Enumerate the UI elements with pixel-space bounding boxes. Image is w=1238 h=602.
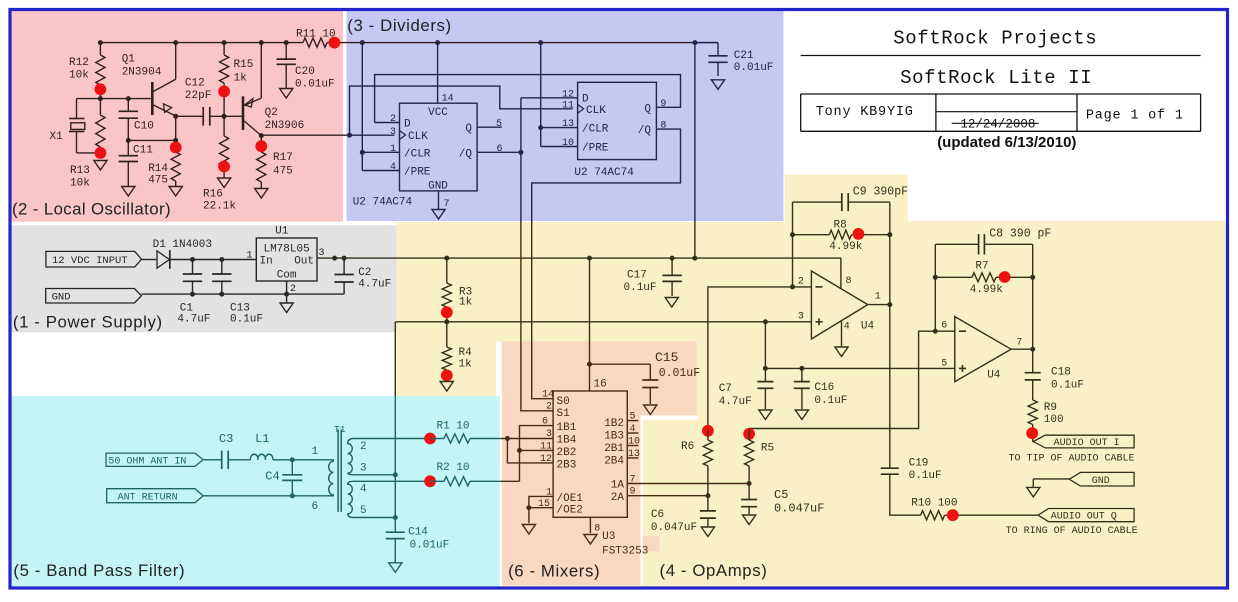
R5 red dot [743, 428, 755, 440]
ground below mixer pin 8 [584, 535, 597, 545]
junction OE2 [526, 505, 531, 510]
wire R5 top to opamp2 inverting input [749, 331, 955, 428]
svg-text:1k: 1k [234, 73, 248, 85]
ground below C21 [711, 80, 724, 90]
wire emitter node to R14 [128, 139, 175, 141]
junction C10 C11 emitter node [126, 138, 131, 143]
resistor R16 [223, 116, 225, 136]
junction rail C21 [692, 40, 697, 45]
wire Q2 collector to dividers clock [261, 134, 349, 136]
svg-text:C7: C7 [719, 383, 732, 395]
svg-text:1B2: 1B2 [604, 418, 624, 430]
svg-text:(1 - Power Supply): (1 - Power Supply) [13, 313, 163, 332]
wire center tap down to C14 [394, 475, 396, 532]
wire clock to U2a CLK pin 3 [350, 134, 395, 136]
junction bias C7 [763, 366, 768, 371]
svg-text:10: 10 [562, 138, 574, 149]
svg-text:22.1k: 22.1k [203, 201, 236, 213]
svg-text:(5 - Band Pass Filter): (5 - Band Pass Filter) [13, 561, 185, 580]
svg-text:C4: C4 [265, 470, 279, 484]
R4 red dot [441, 370, 453, 382]
wire R6 up to opamp1 inverting input [708, 287, 812, 426]
wire opamp1 feedback right vertical [889, 202, 891, 305]
capacitor C3 [221, 451, 223, 470]
U1 pin 2 wire [286, 281, 288, 294]
wire OE1 OE2 tie [529, 496, 553, 523]
wire U2a pin 2 stub [375, 122, 400, 124]
junction bias C16 [799, 366, 804, 371]
capacitor C15 [649, 364, 651, 380]
svg-text:3: 3 [360, 463, 367, 475]
title block date cell divider [936, 111, 1077, 113]
svg-text:U2 74AC74: U2 74AC74 [574, 167, 634, 179]
Q1 emitter C12 tap junction [173, 114, 178, 119]
band pass filter region background (cyan) [11, 396, 500, 588]
tag GND power input [46, 289, 142, 304]
svg-text:FST3253: FST3253 [602, 546, 648, 558]
tag ANT RETURN [107, 489, 203, 503]
wire 12V input to D1 [142, 259, 158, 261]
svg-text:X1: X1 [50, 131, 64, 143]
junction base node R12 [98, 96, 103, 101]
white gap left of mixer region [496, 341, 502, 396]
U4a plus sign [816, 321, 823, 323]
junction opamp1 pin2 node [790, 284, 795, 289]
svg-text:VCC: VCC [428, 107, 448, 119]
ground below R16 [218, 178, 231, 188]
resistor R4 [446, 322, 448, 347]
ground below C15 [644, 405, 657, 415]
svg-text:0.1uF: 0.1uF [909, 470, 942, 482]
wire mixer 2A output [627, 495, 708, 497]
svg-text:4.99k: 4.99k [829, 241, 862, 253]
svg-text:(updated 6/13/2010): (updated 6/13/2010) [937, 134, 1076, 151]
wire opamp1 output down to C19 [889, 305, 891, 469]
U4b minus sign [959, 330, 966, 332]
svg-text:U2 74AC74: U2 74AC74 [353, 197, 413, 209]
flip-flop U2b box [578, 82, 657, 159]
junction opamp2 output [1030, 347, 1035, 352]
svg-text:TO TIP OF AUDIO CABLE: TO TIP OF AUDIO CABLE [1009, 454, 1135, 465]
mixers region background (orange) [502, 341, 641, 585]
wire C19 to R10 [890, 474, 921, 515]
svg-text:S0: S0 [557, 396, 570, 408]
capacitor C7 [764, 368, 766, 381]
svg-text:1B4: 1B4 [557, 435, 577, 447]
junction 5V rail C17 [670, 256, 675, 261]
resistor R9 [1028, 400, 1037, 425]
svg-text:R5: R5 [761, 443, 774, 455]
svg-text:C3: C3 [219, 432, 233, 446]
junction I input net [505, 436, 510, 441]
capacitor C1 [192, 260, 194, 275]
svg-text:3: 3 [798, 311, 804, 322]
wire bias to opamp2 noninverting input [765, 367, 954, 369]
svg-text:4.7uF: 4.7uF [719, 396, 752, 408]
wire D1 to U1 In [170, 259, 256, 261]
wire Q1 base node [77, 98, 153, 100]
svg-text:C17: C17 [627, 270, 647, 282]
junction rail pins14 vertical [360, 40, 365, 45]
power supply region background (gray) [11, 225, 397, 332]
resistor R7 [935, 276, 972, 278]
junction rail R12 [98, 40, 103, 45]
svg-text:GND: GND [1092, 476, 1110, 487]
R1 red dot [424, 433, 436, 445]
wire C3 to L1 [228, 459, 250, 461]
svg-text:/Q: /Q [459, 148, 473, 160]
wire R9 to audio out I tag [1033, 441, 1035, 443]
svg-text:C8 390 pF: C8 390 pF [989, 227, 1051, 240]
junction Q2 collector output [259, 133, 264, 138]
wire U2a pin 4 stub [362, 170, 399, 172]
junction pin5 C14 [393, 515, 398, 520]
svg-text:1: 1 [390, 144, 396, 155]
svg-text:C14: C14 [408, 527, 428, 539]
junction rail pin14 [435, 40, 440, 45]
svg-text:0.047uF: 0.047uF [651, 522, 697, 534]
R12 red dot [95, 83, 107, 95]
op-amp U4a triangle [811, 271, 867, 339]
svg-text:12/24/2008: 12/24/2008 [960, 118, 1035, 132]
ground rail wire [142, 293, 345, 295]
U4a minus sign [816, 286, 823, 288]
diode D1 [157, 251, 169, 268]
svg-text:ANT RETURN: ANT RETURN [118, 492, 178, 503]
svg-text:0.1uF: 0.1uF [624, 282, 657, 294]
svg-text:1k: 1k [459, 359, 473, 371]
svg-text:Tony KB9YIG: Tony KB9YIG [816, 105, 914, 120]
transformer T1 secondary winding lower [348, 481, 354, 517]
R16 red dot [218, 161, 230, 173]
svg-text:T1: T1 [334, 424, 346, 435]
ground below C16 [795, 410, 808, 420]
svg-text:6: 6 [497, 144, 503, 155]
wire VCC top rail in oscillator [100, 42, 303, 44]
svg-text:8: 8 [660, 121, 666, 132]
svg-text:4.7uF: 4.7uF [358, 279, 391, 291]
resistor R14 [175, 140, 177, 152]
junction 5V rail C21 branch [692, 256, 697, 261]
capacitor C12 coupling [202, 107, 204, 126]
svg-text:In: In [260, 256, 273, 268]
junction 5V rail segment [332, 256, 337, 261]
capacitor C9 feedback [793, 201, 842, 203]
wire Q input into mixer region [501, 480, 520, 482]
wire opamp1 pin 4 ground stem [841, 322, 843, 347]
junction Q net 2B2 [517, 448, 522, 453]
svg-text:9: 9 [660, 99, 666, 110]
svg-text:2B2: 2B2 [557, 447, 577, 459]
svg-text:CLK: CLK [586, 105, 606, 117]
U3 right stub 2B1 [627, 445, 638, 447]
svg-text:1: 1 [312, 446, 319, 458]
capacitor C6 [707, 496, 709, 511]
svg-text:R14: R14 [148, 163, 168, 175]
svg-text:2B1: 2B1 [604, 443, 624, 455]
U2a pin 5 stub [477, 126, 502, 128]
U2a CLK input triangle [400, 131, 406, 140]
junction C13 bottom [219, 292, 224, 297]
capacitor C4 [291, 460, 293, 475]
wire mixer pin 8 ground [589, 517, 591, 533]
svg-text:AUDIO OUT Q: AUDIO OUT Q [1051, 512, 1117, 523]
svg-text:(2 - Local Oscillator): (2 - Local Oscillator) [12, 200, 171, 219]
ground below C11 [122, 187, 135, 197]
R8 red dot [853, 228, 865, 240]
junction R7 right [1030, 275, 1035, 280]
svg-text:100: 100 [1044, 414, 1064, 426]
junction 5V rail R3 [444, 256, 449, 261]
ground below C20 [280, 89, 293, 99]
svg-text:22pF: 22pF [185, 90, 211, 102]
svg-text:0.1uF: 0.1uF [814, 395, 847, 407]
svg-text:16: 16 [594, 379, 607, 391]
svg-text:C18: C18 [1051, 367, 1071, 379]
capacitor C16 [801, 368, 803, 381]
svg-text:8: 8 [594, 524, 600, 535]
svg-text:4: 4 [390, 162, 396, 173]
capacitor C18 [1032, 349, 1034, 373]
title block outer lines [801, 55, 1201, 57]
junction rail pins13-10 [538, 40, 543, 45]
svg-text:10k: 10k [69, 70, 89, 82]
resistor R1 [430, 438, 444, 440]
svg-text:4.7uF: 4.7uF [177, 314, 210, 326]
junction 2A R6 C6 [705, 493, 710, 498]
wire T1 pin 5 to C14 node [354, 517, 396, 519]
wire T1 pin 3 center tap [354, 474, 396, 476]
svg-text:475: 475 [273, 166, 293, 178]
svg-text:/PRE: /PRE [582, 143, 609, 155]
svg-text:R10 100: R10 100 [911, 498, 957, 510]
wire 2B2 pin 11 stub [520, 449, 554, 451]
wire U2a pin 1 stub [362, 151, 399, 153]
resistor R3 [446, 258, 448, 283]
wire L1 to T1 pin 1 [273, 459, 323, 461]
svg-text:5: 5 [941, 359, 947, 370]
R2 red dot [424, 475, 436, 487]
tag 12 VDC INPUT [46, 251, 142, 267]
svg-text:2: 2 [360, 441, 367, 453]
svg-text:/CLR: /CLR [582, 124, 609, 136]
svg-text:C2: C2 [358, 267, 371, 279]
svg-text:Q: Q [465, 123, 472, 135]
resistor R10 [921, 511, 945, 520]
wire opamp1 output stub [868, 304, 890, 306]
capacitor C13 [221, 260, 223, 275]
svg-text:(3 - Dividers): (3 - Dividers) [347, 16, 451, 35]
svg-text:7: 7 [444, 199, 450, 210]
capacitor C19 [881, 467, 899, 469]
svg-text:R16: R16 [203, 189, 223, 201]
svg-text:1A: 1A [611, 480, 625, 492]
R13 red dot [95, 147, 107, 159]
capacitor C8 feedback [935, 243, 978, 245]
junction 5V rail mixer VCC [587, 256, 592, 261]
svg-text:R11 10: R11 10 [296, 29, 336, 41]
resistor R6 [707, 431, 709, 440]
tag 50 OHM ANT IN [106, 453, 203, 466]
R14 red dot [170, 142, 182, 154]
R15 red dot [218, 86, 230, 98]
local oscillator region background (pink) [11, 11, 343, 222]
resistor R11 in top rail [303, 38, 327, 47]
wire U2a pin 14 VCC [437, 43, 439, 104]
mixers region FST3253 label patch (orange) [641, 536, 660, 552]
svg-text:C21: C21 [734, 50, 754, 62]
wire ant return to T1 pin 6 [203, 495, 323, 497]
svg-text:10k: 10k [70, 178, 90, 190]
svg-text:C20: C20 [295, 66, 315, 78]
junction rail C20 [284, 40, 289, 45]
R6 red dot [702, 425, 714, 437]
svg-text:11: 11 [562, 100, 574, 111]
svg-text:AUDIO OUT I: AUDIO OUT I [1054, 438, 1120, 449]
capacitor C10 [127, 99, 129, 112]
tag AUDIO OUT I [1033, 435, 1134, 448]
ground below C5 [743, 515, 756, 525]
junction C12 node R15 R16 [222, 114, 227, 119]
svg-text:475: 475 [148, 175, 168, 187]
svg-text:Q2: Q2 [265, 107, 278, 119]
wire C21 branch down to 5V rail [694, 43, 696, 222]
svg-text:14: 14 [442, 94, 454, 105]
junction rail R15 [222, 40, 227, 45]
svg-text:1B3: 1B3 [604, 431, 624, 443]
ground below GND tag wire [1027, 487, 1040, 497]
wire U2b pin 8 to mixer S0 [532, 129, 681, 222]
junction rail Q1 collector [173, 40, 178, 45]
junction 1A R5 C5 [747, 481, 752, 486]
svg-text:R13: R13 [70, 165, 90, 177]
svg-text:(6 - Mixers): (6 - Mixers) [508, 562, 600, 581]
ground below C6 [701, 527, 714, 537]
junction R7 left [933, 275, 938, 280]
U2b CLK input triangle [578, 104, 584, 113]
svg-text:5: 5 [496, 119, 502, 130]
inductor L1 [250, 454, 272, 460]
svg-text:U3: U3 [602, 531, 615, 543]
wire opamp2 feedback right vertical [1032, 244, 1034, 349]
wire T1 pin 2 to R1 [354, 438, 431, 440]
svg-text:R4: R4 [459, 347, 473, 359]
wire opamp1 feedback left vertical [792, 202, 794, 287]
wire U2b pins 13 10 pull-up vertical [540, 43, 542, 147]
svg-text:C11: C11 [133, 145, 153, 157]
transformer T1 core [337, 430, 339, 512]
ground at U1 pin 2 [286, 294, 288, 303]
wire U2b D net down to mixer S1 [520, 98, 522, 222]
wire 2.5V bias rail [395, 321, 811, 323]
resistor R12 [99, 43, 101, 55]
wire crystal to R13 bottom [77, 152, 101, 154]
svg-text:2: 2 [546, 402, 552, 413]
mixer U3 FST3253 box [553, 391, 627, 517]
junction C4 top [290, 457, 295, 462]
svg-text:2N3904: 2N3904 [122, 67, 162, 79]
R3 red dot [441, 306, 453, 318]
transformer T1 primary winding [323, 460, 333, 496]
wire mixer 1A output [627, 483, 749, 485]
svg-text:5: 5 [360, 505, 367, 517]
U3 right stub 2B4 [627, 457, 638, 459]
junction C1 top [190, 257, 195, 262]
svg-text:SoftRock Lite II: SoftRock Lite II [900, 67, 1092, 89]
title block cell borders [800, 94, 802, 131]
capacitor C5 [748, 484, 750, 500]
white gap right of mixer region [641, 420, 643, 586]
white gap between filter and mixer regions [500, 396, 502, 588]
svg-text:Q1: Q1 [122, 54, 136, 66]
ground below opamp1 pin 4 [835, 347, 848, 357]
svg-text:SoftRock Projects: SoftRock Projects [893, 28, 1097, 50]
svg-text:Q: Q [644, 103, 651, 115]
junction pin13 vertical [538, 125, 543, 130]
svg-text:Page 1 of 1: Page 1 of 1 [1086, 109, 1184, 124]
svg-text:L1: L1 [255, 432, 269, 446]
junction U2a pin6 to U2b D [518, 150, 523, 155]
svg-text:2A: 2A [611, 492, 625, 504]
junction center tap [393, 472, 398, 477]
capacitor C21 [695, 42, 718, 44]
svg-text:/OE2: /OE2 [557, 504, 583, 516]
svg-text:2: 2 [390, 114, 396, 125]
wire U2b pin 12 stub [521, 97, 578, 99]
svg-text:1B1: 1B1 [557, 422, 577, 434]
junction pin1 vertical [360, 150, 365, 155]
svg-text:C6: C6 [651, 509, 664, 521]
svg-text:6: 6 [941, 321, 947, 332]
junction opamp1 output [887, 302, 892, 307]
R10 red dot [947, 509, 959, 521]
svg-text:2B3: 2B3 [557, 459, 577, 471]
wire clock branch up to second FF [350, 86, 573, 135]
svg-text:2: 2 [290, 284, 296, 295]
svg-text:1: 1 [875, 292, 881, 303]
svg-text:C15: C15 [655, 350, 678, 365]
wire C7 C16 bias branch [764, 322, 766, 369]
svg-text:2B4: 2B4 [604, 455, 624, 467]
opamps region background (yellow) [397, 175, 1226, 587]
junction U1 pin 2 ground [284, 292, 289, 297]
resistor R8 [793, 234, 830, 236]
R9 red dot [1026, 427, 1038, 439]
junction clock net [347, 133, 352, 138]
tag GND audio [1069, 472, 1134, 486]
U3 right stub 1B2 [627, 420, 638, 422]
svg-text:12 VDC INPUT: 12 VDC INPUT [52, 255, 128, 267]
junction bias rail C7 branch [763, 319, 768, 324]
svg-text:GND: GND [428, 180, 448, 192]
junction pin16 C15 branch [587, 362, 592, 367]
svg-text:6: 6 [312, 501, 319, 513]
tag AUDIO OUT Q [1038, 509, 1134, 522]
svg-text:R15: R15 [234, 59, 254, 71]
svg-text:50 OHM ANT IN: 50 OHM ANT IN [108, 456, 186, 467]
svg-text:R17: R17 [273, 152, 293, 164]
svg-text:4: 4 [844, 322, 850, 333]
ground below C17 [665, 298, 678, 308]
U4b plus sign [959, 367, 966, 369]
wire C12 to Q2 base [210, 115, 243, 117]
junction R8 left [790, 232, 795, 237]
svg-text:R8: R8 [834, 220, 847, 232]
resistor R17 [257, 152, 266, 182]
ground below R4 [440, 382, 453, 392]
resistor R5 [748, 429, 750, 441]
svg-text:0.1uF: 0.1uF [230, 314, 263, 326]
